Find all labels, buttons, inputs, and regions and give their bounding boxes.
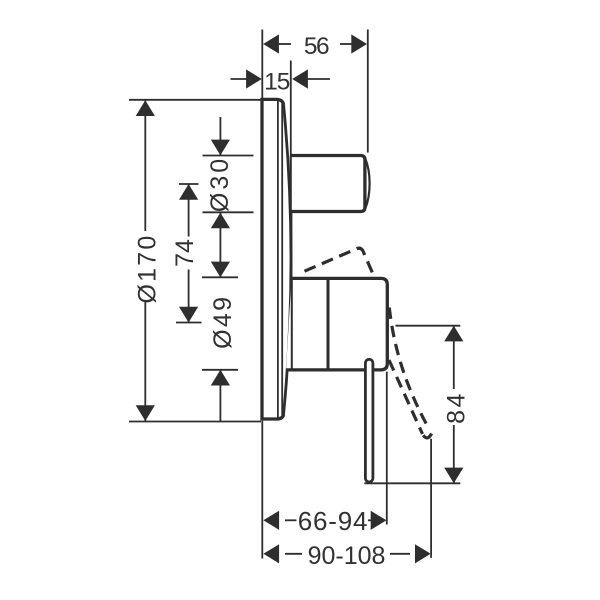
- arrow 84 top: [444, 326, 463, 342]
- part: spout: [291, 156, 370, 212]
- svg-text:66-94: 66-94: [298, 506, 369, 536]
- dim 74 line: [188, 184, 190, 237]
- arrow 90-108 right: [415, 544, 431, 563]
- tick Ø49 bottom: [202, 369, 238, 371]
- arrow O49 bottom: [211, 370, 230, 386]
- part: lever: [365, 359, 373, 482]
- left edge of sleeve: [291, 278, 293, 370]
- part: escutcheon plate: [262, 99, 291, 419]
- divider: [327, 278, 330, 370]
- extension below body right edge (x=387): [386, 372, 388, 525]
- arrows: [136, 34, 464, 563]
- flange line 2: [281, 104, 283, 416]
- arrow 74 bottom: [179, 307, 198, 323]
- tick Ø30 top: [203, 155, 254, 157]
- tick 74 top: [179, 183, 199, 185]
- dim 66-94 stubs: [285, 519, 297, 521]
- tick Ø49 top: [202, 276, 238, 278]
- svg-text:74: 74: [171, 239, 199, 267]
- arrow O170 bottom: [136, 405, 155, 421]
- arrow 90-108 left: [263, 544, 279, 563]
- chain segment between Ø30 bottom and Ø49 top: [219, 213, 221, 278]
- dim 56 line stubs: [279, 43, 292, 45]
- extension line spout tip (x=368): [367, 30, 369, 153]
- 84 extension top: [396, 325, 461, 327]
- svg-text:84: 84: [443, 391, 471, 424]
- dashed lowered lever: [389, 308, 429, 430]
- dim Ø170 vertical line: [144, 101, 146, 232]
- dim 84 line: [453, 326, 455, 389]
- arrow 56 right: [351, 34, 367, 53]
- svg-text:Ø170: Ø170: [134, 234, 162, 304]
- arrow 15 left: [246, 69, 262, 88]
- arrow 56 left: [263, 34, 279, 53]
- svg-text:Ø49: Ø49: [209, 295, 237, 349]
- extension below plate (x=262): [261, 421, 263, 559]
- tick Ø30 bottom: [203, 211, 254, 213]
- tick 74 bottom: [176, 322, 202, 324]
- dashed raised lever: [305, 248, 375, 278]
- plate outline: [262, 99, 284, 419]
- arrow O30 bottom: [211, 213, 230, 229]
- flange line 1: [277, 101, 279, 418]
- svg-text:Ø30: Ø30: [206, 156, 234, 212]
- extension line left of plate (top, x=262): [261, 30, 263, 99]
- extension line 15 right (x=291): [290, 61, 292, 156]
- arrow O30 top: [211, 140, 230, 156]
- arrow 84 bottom: [444, 468, 463, 484]
- arrow O49 top: [211, 262, 230, 278]
- dome curve: [284, 105, 291, 414]
- svg-text:15: 15: [264, 68, 290, 95]
- Ø170 extension top: [129, 99, 261, 101]
- dim 90-108 stubs: [285, 553, 302, 555]
- svg-text:90-108: 90-108: [308, 542, 386, 570]
- arrow 15 right: [292, 69, 308, 88]
- chain line x=220.4 segment above Ø30: [219, 117, 221, 155]
- spout barrel bulge: [365, 159, 369, 209]
- chain segment below Ø49: [219, 370, 221, 422]
- Ø170 extension bottom: [129, 421, 261, 423]
- arrow O170 top: [136, 100, 155, 116]
- svg-text:56: 56: [304, 33, 329, 60]
- arrow 66-94 left: [263, 511, 279, 530]
- extension below dashed lever tip (x=431): [430, 439, 432, 558]
- dim 15 tails: [231, 78, 248, 80]
- 84 extension bottom (lever tip): [364, 482, 460, 484]
- arrow 74 top: [179, 184, 198, 200]
- connector line between spout and body: [290, 212, 292, 278]
- part: handle body: [286, 278, 387, 370]
- arrow 66-94 right: [371, 511, 387, 530]
